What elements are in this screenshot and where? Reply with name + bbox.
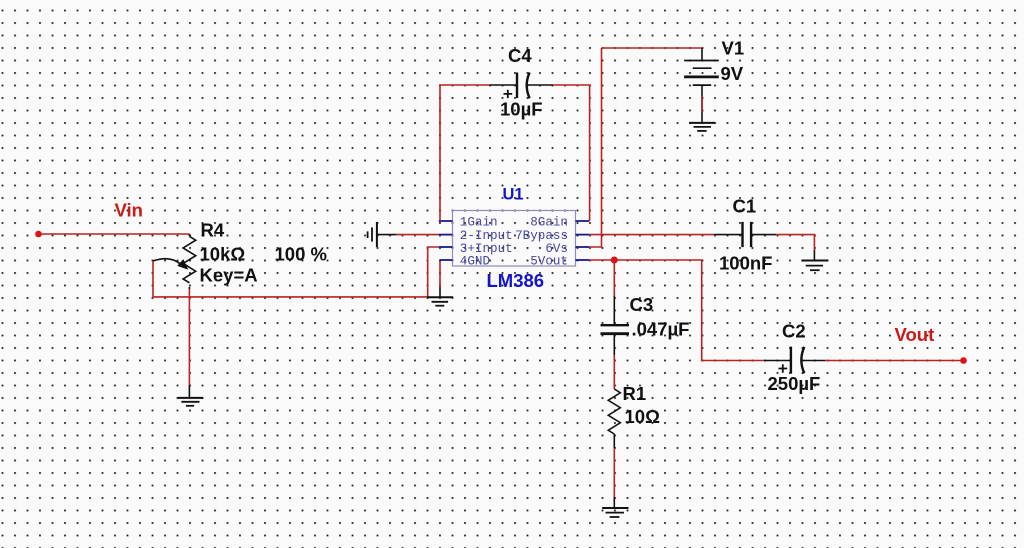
svg-text:Key=A: Key=A (200, 265, 258, 286)
svg-text:C2: C2 (782, 321, 806, 342)
capacitor C1 (714, 222, 776, 247)
wire left ground to pin2 (397, 234, 439, 236)
svg-text:C3: C3 (630, 294, 654, 315)
svg-text:250µF: 250µF (768, 373, 821, 394)
node Vin terminal (35, 231, 42, 238)
node junction (611, 257, 618, 264)
wire pin7 Bypass to C1 (589, 234, 714, 236)
wire C1 to ground (776, 235, 814, 250)
svg-text:8Gain: 8Gain (530, 216, 568, 230)
wire Vin to R4 top (39, 233, 190, 235)
svg-text:Vout: Vout (895, 324, 935, 345)
wire R1 to ground (613, 434, 615, 448)
svg-text:5Vout: 5Vout (530, 255, 568, 269)
wire C2 to Vout terminal (825, 360, 964, 362)
battery V1 (684, 48, 719, 123)
svg-text:.047µF: .047µF (632, 319, 690, 340)
ground under R4 (178, 385, 204, 406)
ground under U1 (427, 287, 453, 306)
svg-text:10Ω: 10Ω (625, 406, 661, 427)
svg-text:C4: C4 (508, 45, 532, 66)
capacitor C3 (601, 296, 630, 355)
wire C3 to R1 (613, 355, 615, 389)
wire pin5 Vout to junction and C2 (589, 260, 764, 361)
svg-text:10µF: 10µF (500, 99, 543, 120)
svg-text:1Gain: 1Gain (460, 216, 498, 230)
ground right of C1 (801, 250, 828, 270)
svg-text:R4: R4 (201, 220, 225, 241)
wire wiper to +Input (153, 247, 439, 297)
svg-text:V1: V1 (722, 37, 745, 58)
potentiometer R4 (153, 234, 196, 289)
resistor R1 (608, 389, 620, 434)
wire R4 bottom to ground (188, 289, 190, 385)
wire junction down to C3 (613, 260, 615, 296)
svg-text:Vin: Vin (115, 199, 143, 220)
svg-text:C1: C1 (733, 195, 757, 216)
capacitor C2 (764, 347, 825, 374)
node Vout terminal (960, 357, 967, 364)
svg-text:100 %: 100 % (275, 243, 327, 264)
svg-text:2-Input: 2-Input (460, 229, 513, 243)
ground under V1 (689, 123, 715, 131)
svg-text:4GND: 4GND (460, 255, 490, 269)
svg-text:10kΩ: 10kΩ (200, 243, 246, 264)
svg-text:R1: R1 (623, 383, 647, 404)
pin 5 Vout stub right (576, 259, 590, 261)
pin 2 -Input stub left (439, 234, 453, 236)
pin 7 Bypass stub right (576, 234, 590, 236)
pin 1 Gain stub left (439, 220, 453, 222)
pin 6 Vs stub right (576, 246, 590, 248)
svg-text:LM386: LM386 (487, 270, 545, 291)
pin 3 +Input stub left (439, 246, 453, 248)
wire pin4 down (439, 261, 441, 287)
svg-text:9V: 9V (721, 63, 744, 84)
ground left of U1 (sideways) (368, 222, 397, 247)
op-amp U1 LM386 box (453, 211, 576, 267)
svg-text:7Bypass: 7Bypass (515, 229, 568, 243)
pin 4 GND stub left (440, 259, 453, 261)
svg-text:100nF: 100nF (719, 253, 772, 274)
wire battery V1 top (589, 48, 702, 247)
wire battery negative lead red segment (701, 97, 703, 112)
svg-text:U1: U1 (503, 186, 524, 204)
pin 8 Gain stub right (576, 220, 590, 222)
ground under R1 (602, 497, 628, 517)
capacitor C4 (490, 73, 554, 99)
wire C4 loop: pin1 up, top, down to pin8 (440, 85, 590, 221)
